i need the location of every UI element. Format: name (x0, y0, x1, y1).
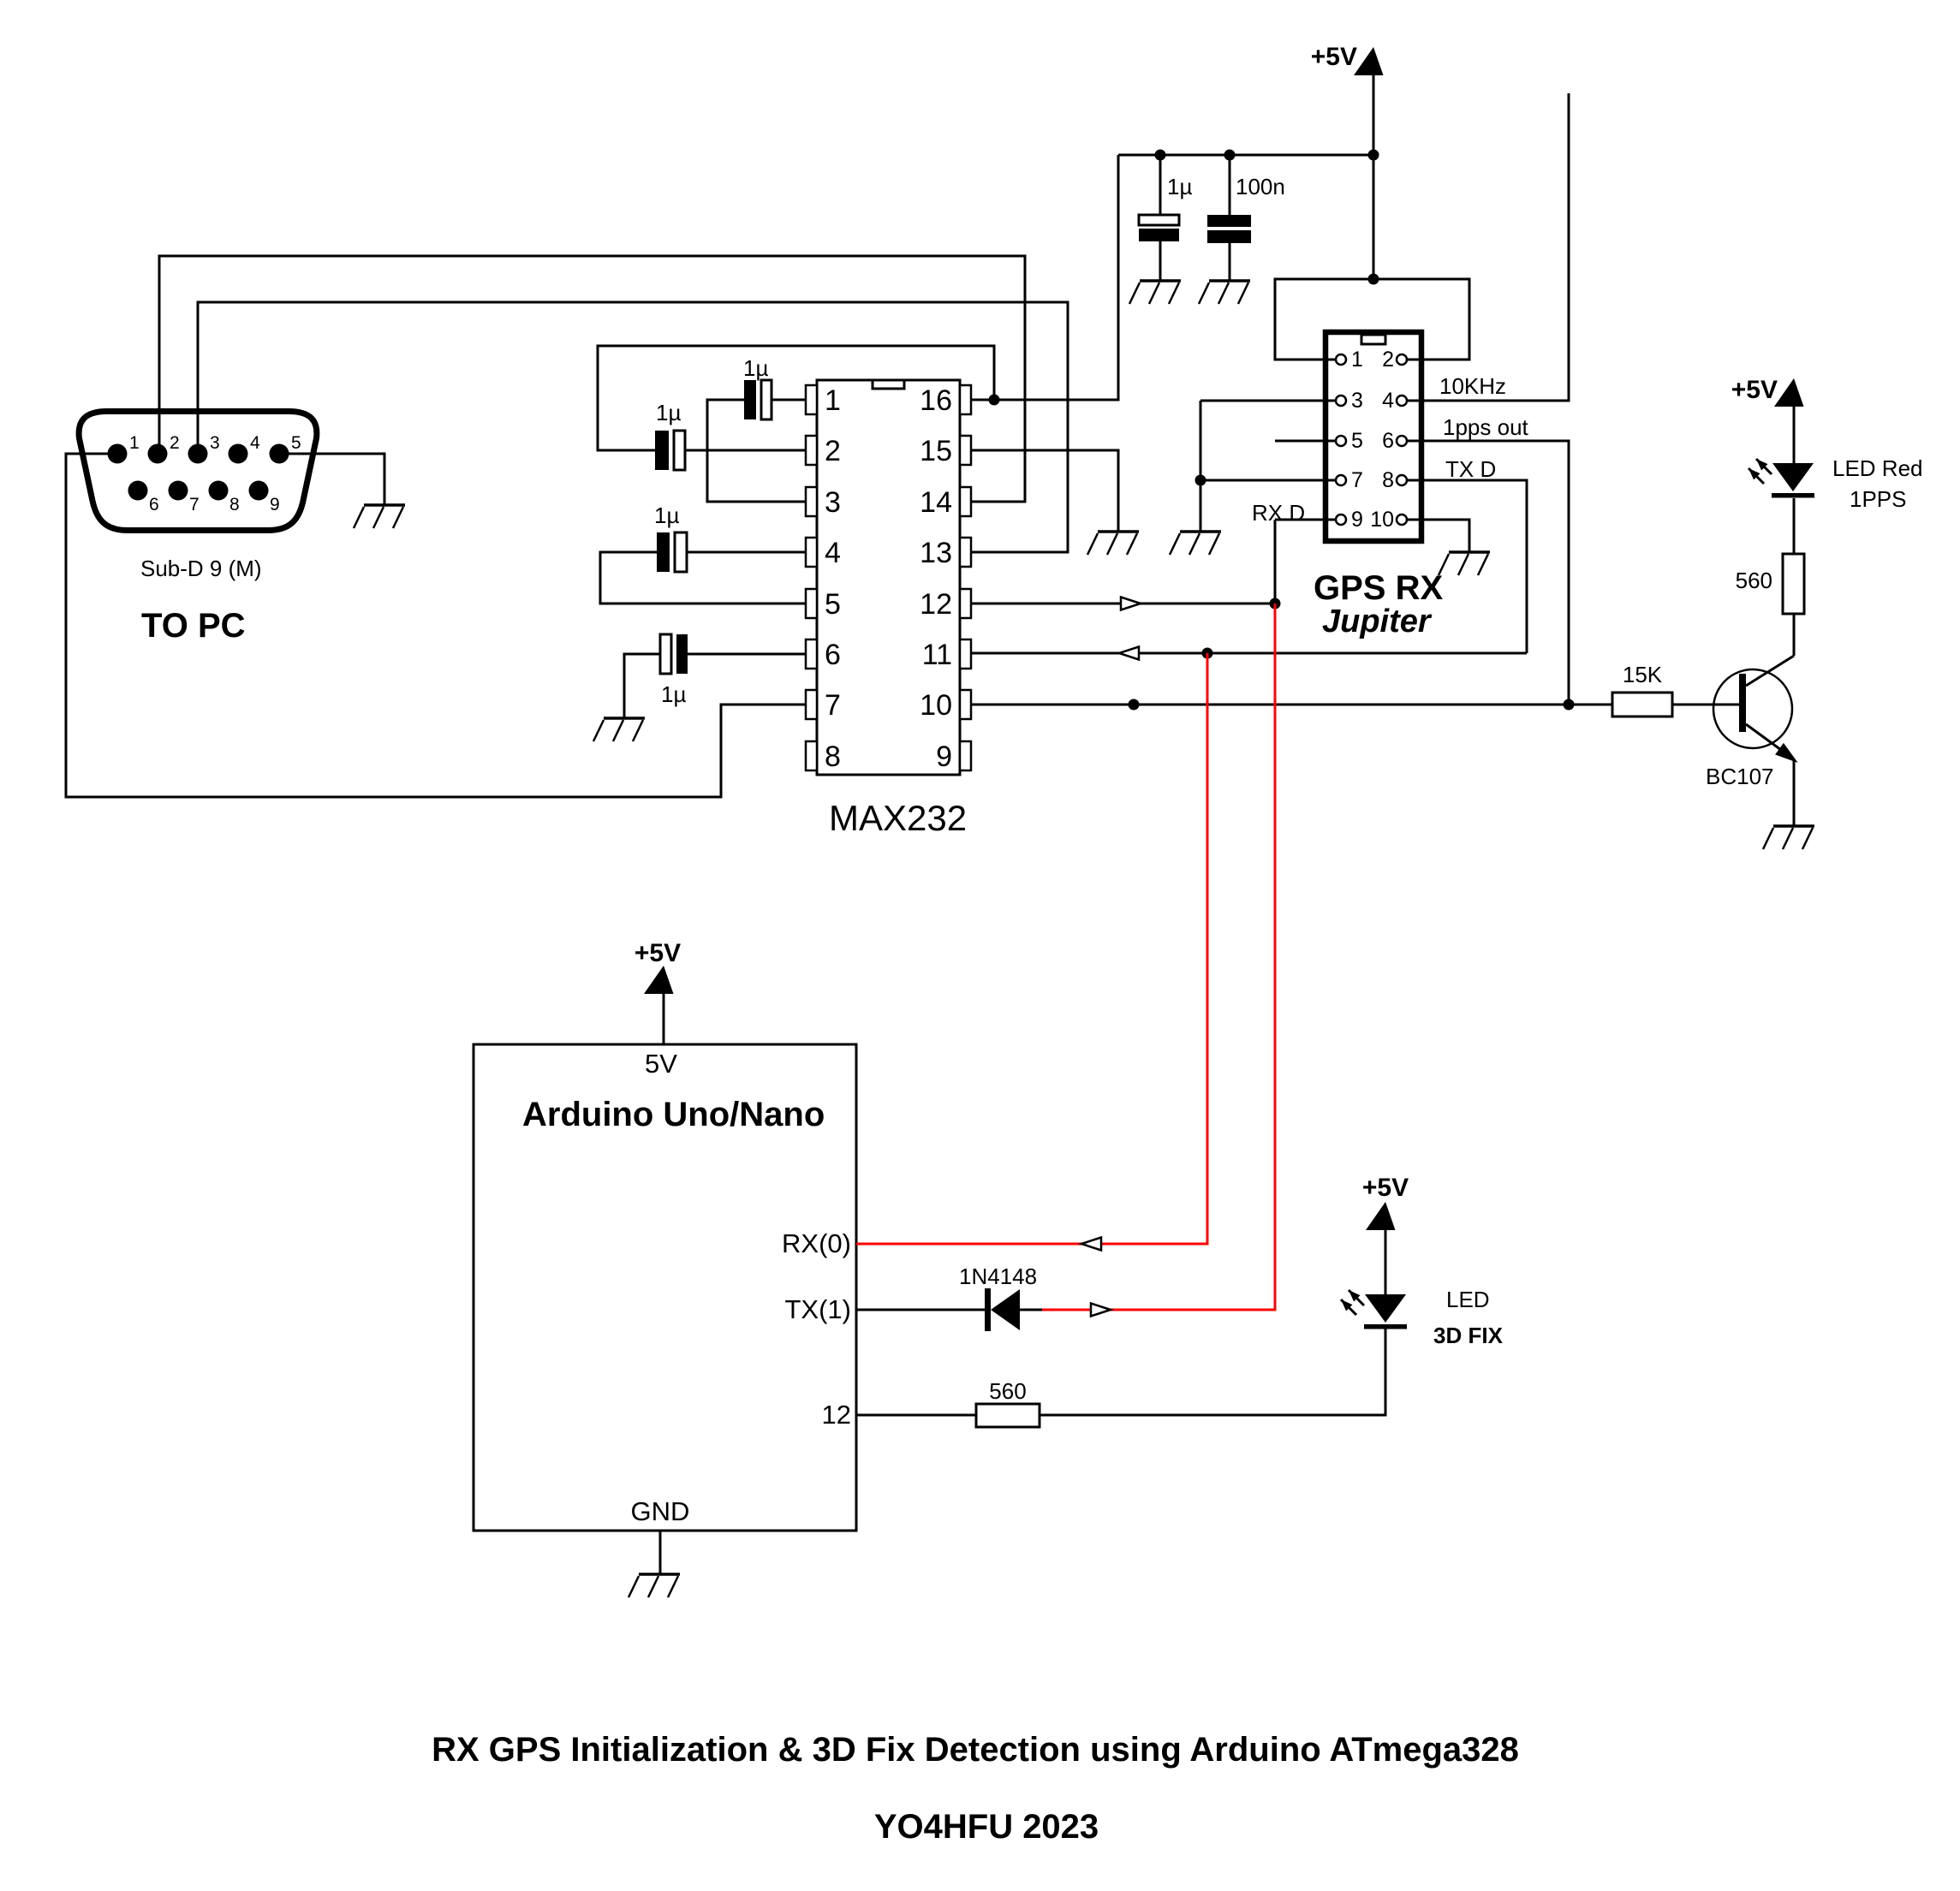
svg-text:6: 6 (1382, 429, 1394, 453)
svg-text:3: 3 (210, 433, 220, 453)
transistor Q1 BC107 (1713, 656, 1796, 761)
junction rail / C6 (1224, 150, 1236, 161)
wire 560 to LED 3D FIX cathode (1040, 1329, 1385, 1415)
wire DB9 pin1 to MAX232 pin7 (GND loop) (66, 454, 806, 797)
junction 1pps out / pin10 line (1564, 699, 1575, 711)
GPS pin 8 (1397, 475, 1407, 485)
svg-text:1µ: 1µ (743, 355, 768, 381)
svg-text:1pps out: 1pps out (1443, 414, 1529, 440)
wire C4 to pin6 (688, 653, 806, 656)
DB9 pin 9 (249, 481, 269, 501)
wire 1N4148 to red TX net (1020, 1309, 1042, 1311)
svg-text:4: 4 (250, 433, 260, 453)
svg-text:16: 16 (920, 384, 952, 417)
svg-text:Arduino Uno/Nano: Arduino Uno/Nano (522, 1096, 825, 1133)
svg-text:2: 2 (1382, 348, 1394, 372)
MAX232 pin 4 stub (806, 538, 817, 567)
connector Sub-D 9 (M) TO PC shell (79, 412, 317, 531)
svg-text:6: 6 (825, 639, 841, 671)
junction on pin10 line (1129, 699, 1140, 711)
wire C4 to ground (624, 654, 660, 718)
arrow signal direction into Arduino RX(0) (1081, 1238, 1101, 1251)
junction rail / +5V stem (1368, 150, 1379, 161)
svg-text:RX GPS Initialization & 3D Fix: RX GPS Initialization & 3D Fix Detection… (432, 1731, 1519, 1769)
wire MAX232 pin10 to 15K resistor (971, 704, 1612, 706)
svg-text:2: 2 (170, 433, 180, 453)
MAX232 pin 12 stub (960, 589, 971, 618)
connector GPS RX Jupiter body (1326, 332, 1421, 541)
ground (GPS pin10) (1439, 552, 1490, 575)
junction +5V feed (1368, 274, 1379, 285)
arrow signal direction to GPS RX D (1121, 598, 1141, 610)
junction RX D / red wire to Arduino TX (1270, 598, 1281, 610)
wire +5V to LED 3D FIX anode (1385, 1230, 1387, 1294)
wire +5V to GPS pin1 (1275, 279, 1373, 360)
wire +5V to GPS pin2 (1373, 279, 1469, 360)
wire GPS pin6 1pps out (1402, 441, 1569, 705)
GPS pin 2 (1397, 354, 1407, 365)
ground (MAX232 pin15) (1087, 532, 1139, 555)
wire TX(1) to 1N4148 anode side (856, 1309, 986, 1311)
svg-text:1µ: 1µ (656, 400, 681, 425)
arrow signal direction into MAX232 pin11 (1119, 647, 1139, 660)
wire GPS pin5 stub (1275, 440, 1341, 443)
wire GPS pin8 TX D (1402, 480, 1527, 653)
MAX232 pin 11 stub (960, 639, 971, 669)
ground (GPS pins 3/7) (1170, 532, 1221, 555)
resistor R3 560 (976, 1404, 1040, 1427)
power +5V (top) (1354, 47, 1384, 75)
MAX232 pin 9 stub (960, 741, 971, 770)
wire 15K to BC107 base (1672, 704, 1739, 706)
wire +5V to LED Red anode (1793, 407, 1796, 463)
MAX232 pin 2 stub (806, 436, 817, 465)
svg-text:5: 5 (825, 588, 841, 621)
MAX232 pin 13 stub (960, 538, 971, 567)
DB9 pin 7 (169, 481, 188, 501)
svg-text:1N4148: 1N4148 (959, 1264, 1037, 1289)
svg-text:4: 4 (1382, 389, 1394, 413)
svg-text:Jupiter: Jupiter (1322, 604, 1433, 639)
arrow signal direction to GPS (1091, 1304, 1111, 1317)
ground (C5) (1129, 281, 1181, 304)
capacitor C1 1u at MAX232 pin1 (744, 380, 771, 419)
wire Arduino pin12 to 560 resistor (856, 1414, 976, 1417)
wire +5V to Arduino 5V pin (663, 994, 665, 1044)
wire GPS pin7 to ground rail (1200, 479, 1341, 482)
svg-text:Sub-D 9 (M): Sub-D 9 (M) (140, 556, 262, 581)
svg-text:560: 560 (1736, 568, 1772, 593)
wire MAX232 pin15 to ground (971, 450, 1118, 532)
svg-text:GND: GND (631, 1496, 690, 1526)
wire GPS pin9 RX D (1275, 519, 1341, 521)
wire C1 to pin3 (707, 400, 806, 502)
svg-text:13: 13 (920, 537, 952, 569)
wire C3 to pin4 (687, 551, 806, 554)
wire MAX232 pin11 from TX D net (971, 652, 1527, 655)
svg-text:TO PC: TO PC (141, 607, 246, 645)
power +5V (LED 3D FIX) (1366, 1202, 1396, 1230)
wire red: GPS RX D net to Arduino TX(1) via 1N4148 (1042, 604, 1275, 1310)
GPS pin 4 (1397, 395, 1407, 406)
svg-text:15K: 15K (1623, 662, 1663, 687)
wire emitter to ground (1793, 759, 1796, 826)
svg-text:1: 1 (825, 384, 841, 417)
svg-text:7: 7 (189, 495, 200, 514)
wire red: GPS TX D net to Arduino RX(0) (856, 653, 1207, 1244)
DB9 pin 2 (148, 444, 168, 464)
svg-text:1PPS: 1PPS (1850, 486, 1907, 512)
svg-text:MAX232: MAX232 (829, 798, 967, 838)
svg-text:14: 14 (920, 486, 952, 519)
svg-text:3D FIX: 3D FIX (1433, 1323, 1504, 1348)
svg-text:4: 4 (825, 537, 841, 569)
MAX232 pin 15 stub (960, 436, 971, 465)
LED D2 Red 1PPS (1749, 459, 1814, 498)
wire +5V rail (1118, 154, 1373, 157)
svg-text:9: 9 (936, 740, 952, 773)
svg-text:9: 9 (1351, 508, 1363, 532)
power +5V (Arduino) (644, 966, 674, 994)
svg-text:6: 6 (149, 495, 159, 514)
svg-text:LED Red: LED Red (1832, 455, 1923, 481)
svg-text:7: 7 (1351, 468, 1363, 492)
GPS pin 9 (1336, 514, 1346, 525)
Arduino Uno/Nano module body (474, 1044, 856, 1531)
svg-text:+5V: +5V (1362, 1174, 1409, 1202)
DB9 pin 4 (229, 444, 248, 464)
wire MAX232 pin12 to RX D net (971, 603, 1275, 605)
ground (DB9 pin5) (354, 505, 405, 528)
wire RX D drop to MAX232 pin12 net (1274, 520, 1277, 604)
MAX232 pin 1 stub (806, 385, 817, 414)
capacitor C2 1u at MAX232 pin2 (655, 431, 685, 470)
svg-text:10KHz: 10KHz (1439, 373, 1506, 399)
resistor R2 15K (1612, 693, 1672, 717)
wire C2 to pin2 (685, 449, 806, 452)
svg-text:LED: LED (1446, 1287, 1490, 1312)
wire +5V arrow stem down to GPS supply node (1373, 75, 1375, 279)
MAX232 pin 8 stub (806, 741, 817, 770)
DB9 pin 8 (209, 481, 229, 501)
wire DB9 pin5 to ground (279, 454, 384, 505)
GPS pin 6 (1397, 436, 1407, 446)
svg-text:8: 8 (825, 740, 841, 773)
svg-text:1: 1 (129, 433, 140, 453)
op-amp U1 MAX232 IC body (817, 380, 960, 775)
resistor R1 560 (1783, 554, 1804, 614)
wire C3 to pin5 (600, 552, 806, 604)
wire LED Red cathode to 560 (1793, 498, 1796, 554)
svg-text:RX D: RX D (1252, 500, 1305, 526)
svg-text:9: 9 (270, 495, 280, 514)
svg-text:+5V: +5V (634, 939, 681, 967)
capacitor C4 1u at MAX232 pin6 (660, 634, 688, 674)
junction rail / C5 (1155, 150, 1166, 161)
GPS pin 1 (1336, 354, 1346, 365)
LED D3 3D FIX (1341, 1290, 1407, 1329)
wire DB9 pin3 to MAX232 pin13 (198, 302, 1068, 552)
svg-text:5: 5 (1351, 429, 1363, 453)
svg-text:1µ: 1µ (654, 502, 679, 528)
svg-text:2: 2 (825, 435, 841, 467)
svg-text:11: 11 (922, 639, 952, 671)
ground (C6) (1199, 281, 1250, 304)
DB9 pin 6 (128, 481, 148, 501)
DB9 pin 5 (270, 444, 289, 464)
wire C1 to pin1 (771, 399, 806, 401)
svg-text:3: 3 (825, 486, 841, 519)
svg-text:5: 5 (291, 433, 301, 453)
capacitor C3 1u at MAX232 pin4 (657, 532, 687, 572)
ground (Arduino GND) (629, 1574, 680, 1597)
DB9 pin 3 (188, 444, 208, 464)
svg-text:TX D: TX D (1445, 456, 1496, 482)
wire rail to C6 (1229, 155, 1231, 215)
GPS pin 5 (1336, 436, 1346, 446)
svg-text:+5V: +5V (1731, 376, 1778, 404)
wire rail down to MAX232 pin16 (971, 155, 1118, 400)
diode D1 1N4148 (985, 1288, 1020, 1331)
svg-text:8: 8 (229, 495, 240, 514)
wire C5 to ground (1159, 241, 1162, 281)
MAX232 pin 7 stub (806, 690, 817, 719)
MAX232 pin 5 stub (806, 589, 817, 618)
svg-text:100n: 100n (1236, 174, 1285, 199)
svg-text:YO4HFU 2023: YO4HFU 2023 (874, 1808, 1099, 1846)
wire GND pin to ground (659, 1531, 662, 1574)
svg-text:560: 560 (989, 1378, 1026, 1404)
ground (BC107 emitter) (1763, 826, 1814, 849)
DB9 pin 1 (108, 444, 128, 464)
junction at MAX232 pin16 (989, 395, 1000, 406)
wire GPS pin3 to ground rail (1200, 400, 1341, 402)
svg-text:TX(1): TX(1) (785, 1294, 852, 1324)
svg-text:1: 1 (1351, 348, 1363, 372)
wire C2 to pin16 junction (598, 346, 994, 450)
MAX232 pin 3 stub (806, 487, 817, 516)
junction TX D / red wire to Arduino RX (1202, 648, 1213, 659)
svg-text:1µ: 1µ (661, 681, 686, 707)
svg-text:GPS RX: GPS RX (1314, 569, 1443, 607)
MAX232 pin 6 stub (806, 639, 817, 669)
junction GPS pin7 ground (1195, 475, 1206, 486)
svg-text:12: 12 (920, 588, 952, 621)
wire DB9 pin2 to MAX232 pin14 (159, 256, 1025, 502)
wire rail to C5 (1159, 155, 1162, 215)
wire GPS pin4 10KHz output (1402, 93, 1569, 401)
svg-text:1µ: 1µ (1167, 174, 1192, 199)
power +5V (LED Red) (1774, 378, 1804, 407)
GPS pin 3 (1336, 395, 1346, 406)
svg-text:RX(0): RX(0) (782, 1228, 851, 1258)
svg-text:7: 7 (825, 689, 841, 722)
MAX232 pin 14 stub (960, 487, 971, 516)
svg-text:15: 15 (920, 435, 952, 467)
MAX232 pin 16 stub (960, 385, 971, 414)
MAX232 pin 10 stub (960, 690, 971, 719)
wire GPS pin10 to ground (1402, 520, 1469, 552)
svg-text:12: 12 (822, 1400, 851, 1430)
svg-text:10: 10 (1370, 508, 1394, 532)
GPS pin 7 (1336, 475, 1346, 485)
GPS pin 10 (1397, 514, 1407, 525)
wire C6 to ground (1229, 243, 1231, 281)
svg-text:+5V: +5V (1311, 43, 1357, 71)
svg-text:8: 8 (1382, 468, 1394, 492)
svg-text:10: 10 (920, 689, 952, 722)
svg-text:5V: 5V (645, 1049, 677, 1079)
wire ground drop (GPS pins 3/7) (1200, 401, 1202, 532)
ground (C4) (593, 718, 645, 741)
wire collector to 560 resistor (1793, 614, 1796, 656)
svg-text:BC107: BC107 (1706, 764, 1774, 789)
svg-text:3: 3 (1351, 389, 1363, 413)
